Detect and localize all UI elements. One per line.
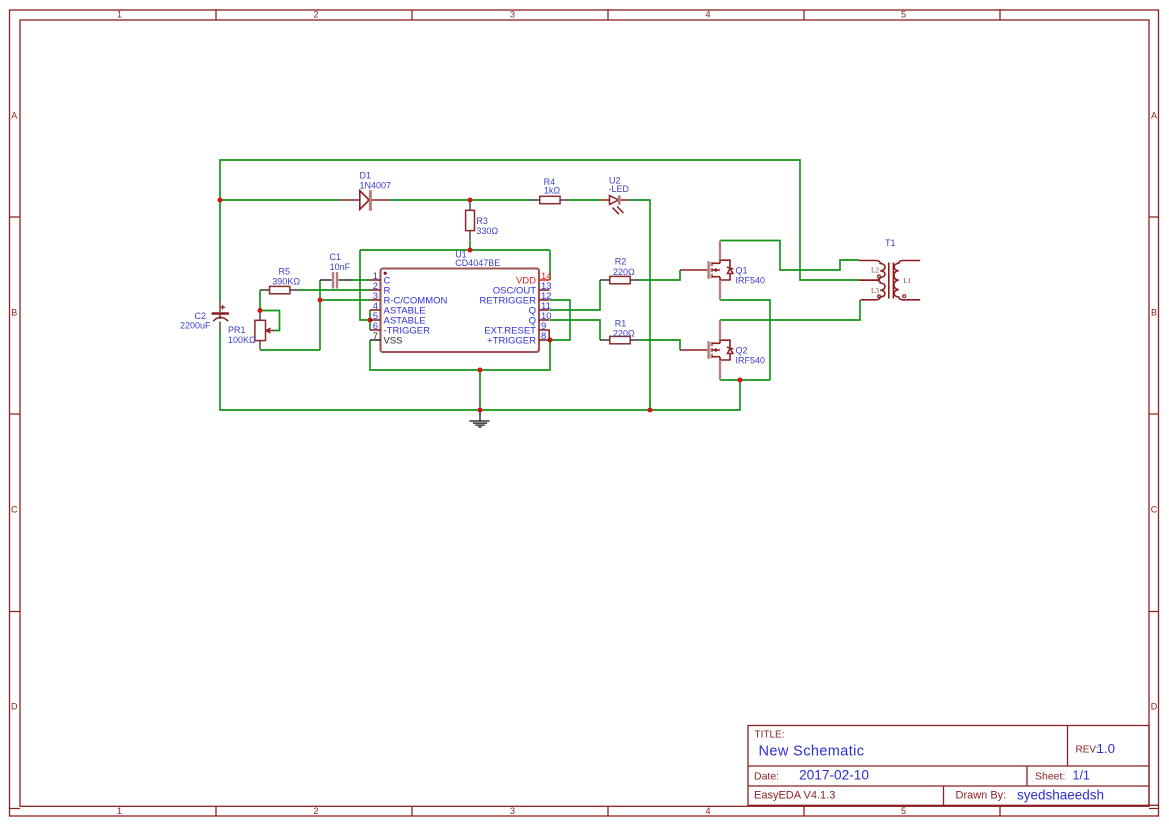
wire LED cathode down to ground rail: [629, 200, 650, 410]
svg-text:-LED: -LED: [609, 184, 630, 194]
svg-text:1.0: 1.0: [1097, 741, 1116, 756]
svg-text:2: 2: [313, 806, 318, 816]
svg-text:Drawn By:: Drawn By:: [956, 790, 1007, 802]
svg-text:T1: T1: [885, 238, 896, 248]
junction battery+ / D1 anode node: [218, 198, 223, 203]
potentiometer PR1 100K: [228, 312, 274, 350]
wire Q1 source to ground junction: [720, 300, 770, 380]
svg-text:R2: R2: [615, 257, 627, 267]
wire R1 to Q2 gate: [639, 340, 680, 350]
svg-text:D1: D1: [360, 170, 372, 180]
LED U2: [601, 175, 630, 214]
resistor R3 330: [466, 202, 499, 241]
wire battery+ to D1 anode: [220, 199, 340, 201]
wire Q2 source: [720, 379, 770, 381]
svg-text:R1: R1: [615, 318, 627, 328]
resistor R2 220: [600, 257, 639, 284]
capacitor C2 2200uF: [180, 299, 229, 331]
svg-text:R5: R5: [279, 266, 291, 276]
transformer T1: [859, 238, 920, 300]
wire Q2 drain to transformer L3: [720, 300, 860, 320]
svg-text:C: C: [11, 504, 18, 514]
junction VSS wire / ground tap node: [478, 368, 483, 373]
svg-text:New Schematic: New Schematic: [759, 744, 865, 760]
svg-text:L1: L1: [903, 277, 911, 285]
transistor Q1 IRF540: [680, 241, 765, 301]
wire ground rail: [220, 330, 740, 410]
svg-text:L3: L3: [871, 287, 879, 295]
svg-text:4: 4: [705, 806, 710, 816]
svg-text:220Ω: 220Ω: [613, 267, 635, 277]
svg-text:syedshaeedsh: syedshaeedsh: [1017, 788, 1104, 803]
wire ground symbol tap: [479, 370, 481, 410]
svg-text:390KΩ: 390KΩ: [272, 276, 300, 286]
wire Q1 drain to transformer L2: [720, 241, 859, 271]
svg-text:D: D: [11, 701, 18, 711]
svg-text:1kΩ: 1kΩ: [544, 186, 561, 196]
wire C1 right to pin 1: [350, 279, 370, 281]
svg-text:7: 7: [373, 331, 378, 342]
svg-text:1N4007: 1N4007: [360, 180, 392, 190]
wire VDD to ASTABLE pins 4-6: [360, 250, 370, 330]
U1 pin names: [384, 276, 448, 347]
svg-text:Sheet:: Sheet:: [1035, 771, 1065, 783]
svg-text:5: 5: [901, 10, 906, 20]
wire VDD to pin 14: [549, 250, 551, 280]
junction pin8 +TRIGGER node: [548, 338, 553, 343]
U1 pin stubs left: [370, 280, 381, 340]
title block: [748, 726, 1159, 806]
svg-text:VSS: VSS: [384, 336, 403, 347]
svg-text:2200uF: 2200uF: [180, 321, 211, 331]
svg-text:2017-02-10: 2017-02-10: [799, 768, 869, 783]
junction R5 / PR1 top / wiper node: [258, 308, 263, 313]
resistor R1 220: [600, 318, 639, 344]
svg-text:A: A: [11, 110, 17, 120]
junction D1 cathode / R3 / R4 node: [468, 198, 473, 203]
resistor R4 1k: [530, 177, 569, 204]
svg-text:8: 8: [541, 331, 546, 342]
junction ground rail / ground symbol node: [478, 408, 483, 413]
svg-text:A: A: [1151, 110, 1157, 120]
svg-text:Q2: Q2: [736, 345, 748, 355]
svg-text:10nF: 10nF: [330, 262, 351, 272]
ground: [469, 411, 489, 427]
svg-text:3: 3: [510, 806, 515, 816]
IC U1 CD4047BE body: [381, 250, 540, 352]
svg-text:D: D: [1151, 701, 1158, 711]
svg-text:REV:: REV:: [1076, 745, 1099, 756]
capacitor C1 10nF: [320, 252, 351, 289]
svg-text:330Ω: 330Ω: [476, 226, 498, 236]
wire PR1 wiper loop: [260, 311, 280, 331]
svg-text:B: B: [11, 307, 17, 317]
svg-text:C: C: [1151, 504, 1158, 514]
junction ASTABLE pin5 node: [368, 318, 373, 323]
U1 pin numbers: [373, 271, 378, 342]
svg-text:IRF540: IRF540: [736, 276, 766, 286]
svg-text:1/1: 1/1: [1073, 769, 1090, 783]
wire pin 12 to pin 8: [550, 300, 570, 340]
wire pin 11 Q to R2: [550, 280, 600, 310]
svg-text:+TRIGGER: +TRIGGER: [487, 336, 536, 347]
wire R5 left bend to PR1 top: [259, 290, 261, 311]
svg-text:PR1: PR1: [228, 325, 246, 335]
svg-text:1: 1: [117, 10, 122, 20]
svg-text:R3: R3: [476, 216, 488, 226]
svg-text:IRF540: IRF540: [736, 356, 766, 366]
svg-text:Date:: Date:: [754, 771, 779, 783]
svg-text:CD4047BE: CD4047BE: [455, 258, 500, 268]
junction Q2 source / ground rail node: [738, 378, 743, 383]
wire pin 10 Q to R1: [550, 320, 600, 340]
diode D1 1N4007: [340, 170, 392, 211]
svg-text:L2: L2: [871, 267, 879, 275]
svg-text:C1: C1: [330, 252, 342, 262]
junction C1 / pin3 / PR1 bottom node: [318, 298, 323, 303]
svg-text:4: 4: [705, 10, 710, 20]
wire R2 to Q1 gate: [639, 270, 680, 280]
wire R5 right to pin 2: [299, 289, 370, 291]
wire R3 bottom to VDD distribution: [469, 240, 471, 250]
U1 pin stubs right: [539, 280, 550, 340]
svg-text:100KΩ: 100KΩ: [228, 335, 256, 345]
svg-text:220Ω: 220Ω: [613, 328, 635, 338]
wire VSS pin7 to pin8 node: [370, 340, 550, 370]
junction R3 / VDD node: [468, 248, 473, 253]
svg-text:B: B: [1151, 307, 1157, 317]
wire VDD distribution horizontal: [360, 249, 550, 251]
wire VDD rail from C2 top up across to transformer center tap: [220, 160, 859, 300]
junction LED return / ground rail node: [648, 408, 653, 413]
resistor R5 390K: [260, 266, 300, 293]
svg-text:Q1: Q1: [736, 265, 748, 275]
transistor Q2 IRF540: [680, 320, 765, 380]
wire R4 to U2 LED anode: [569, 199, 601, 201]
wire node C1/pin3/PR1 vertical: [260, 280, 370, 350]
svg-text:3: 3: [510, 10, 515, 20]
svg-text:EasyEDA V4.1.3: EasyEDA V4.1.3: [754, 790, 835, 802]
svg-text:5: 5: [901, 806, 906, 816]
wire D1 cathode to R3/R4 node: [390, 199, 531, 201]
svg-text:TITLE:: TITLE:: [755, 730, 785, 741]
svg-text:2: 2: [313, 10, 318, 20]
svg-text:1: 1: [117, 806, 122, 816]
svg-text:C2: C2: [195, 311, 207, 321]
